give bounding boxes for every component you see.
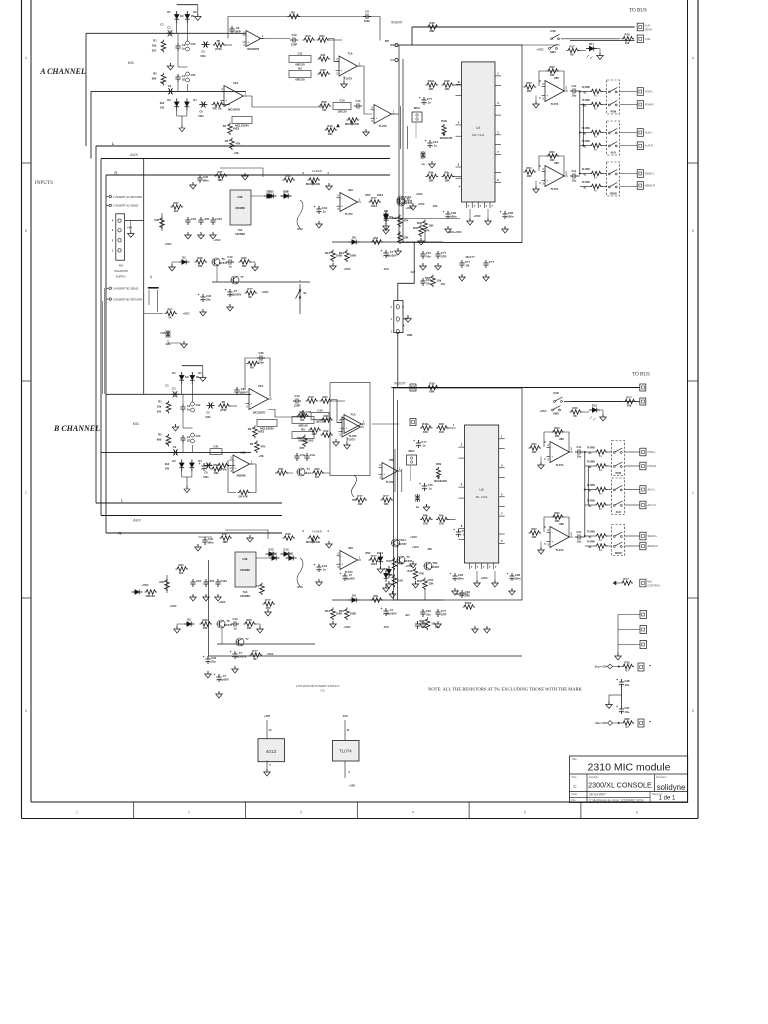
svg-text:CUE: CUE (645, 37, 651, 41)
svg-text:1=PHANTOM POWER STRUCT: 1=PHANTOM POWER STRUCT (296, 684, 340, 688)
svg-text:T5: T5 (406, 555, 410, 559)
svg-text:C??: C?? (465, 260, 471, 264)
svg-text:SW2: SW2 (553, 412, 559, 416)
svg-text:18-Jul-2007: 18-Jul-2007 (589, 793, 606, 797)
svg-text:10u: 10u (625, 683, 630, 687)
svg-text:R34: R34 (179, 563, 184, 567)
svg-text:C1L: C1L (576, 445, 581, 449)
svg-text:C40: C40 (203, 175, 208, 179)
svg-text:4.7: 4.7 (625, 669, 629, 673)
svg-text:+: + (649, 664, 651, 668)
svg-text:+VCC: +VCC (261, 290, 268, 294)
svg-text:R54: R54 (532, 527, 537, 531)
svg-text:TL074: TL074 (339, 749, 352, 754)
svg-text:T1A: T1A (347, 52, 352, 56)
svg-text:301: 301 (152, 48, 157, 52)
svg-text:PGM-L: PGM-L (645, 90, 654, 94)
svg-text:C?: C? (349, 573, 353, 577)
svg-text:PGM-R: PGM-R (648, 464, 657, 468)
svg-text:2K2: 2K2 (309, 439, 314, 443)
svg-text:+: + (225, 99, 227, 103)
svg-text:T7: T7 (245, 637, 249, 641)
svg-text:1u: 1u (421, 162, 424, 166)
svg-text:48V: 48V (119, 264, 124, 268)
svg-text:CONTROL: CONTROL (648, 583, 661, 587)
svg-text:C36: C36 (259, 351, 264, 355)
svg-text:C9: C9 (236, 26, 240, 30)
svg-text:6K: 6K (248, 295, 251, 299)
svg-text:1M5: 1M5 (217, 178, 223, 182)
svg-text:R6?: R6? (167, 307, 172, 311)
svg-text:+: + (413, 439, 415, 443)
svg-text:C??: C?? (441, 251, 447, 255)
svg-text:+VCC: +VCC (182, 312, 189, 316)
svg-text:-: - (376, 108, 377, 112)
svg-text:R37: R37 (218, 170, 223, 174)
svg-text:7s: 7s (599, 538, 602, 542)
svg-text:1u/50V: 1u/50V (346, 577, 355, 581)
svg-text:C??: C?? (421, 440, 427, 444)
svg-text:C13: C13 (433, 140, 438, 144)
svg-text:10k: 10k (431, 622, 436, 626)
svg-text:R2: R2 (158, 432, 162, 436)
svg-text:INSERT: INSERT (391, 21, 403, 25)
svg-text:MC33078: MC33078 (228, 108, 240, 112)
svg-text:C??: C?? (441, 609, 447, 613)
svg-text:B: B (403, 323, 405, 327)
svg-text:PT: PT (352, 498, 356, 502)
svg-text:IN?: IN? (385, 39, 390, 43)
svg-text:R45: R45 (445, 79, 450, 83)
svg-text:10K: 10K (242, 264, 247, 268)
svg-text:7s: 7s (594, 148, 597, 152)
svg-text:T7: T7 (240, 275, 244, 279)
svg-text:1N C??: 1N C?? (465, 255, 475, 259)
svg-text:2310 MIC module: 2310 MIC module (588, 762, 671, 774)
svg-text:SEND-L: SEND-L (648, 534, 658, 538)
svg-text:FADER: FADER (312, 530, 322, 534)
svg-text:10K: 10K (312, 432, 317, 436)
svg-text:+: + (375, 117, 377, 121)
svg-text:MG.7341: MG.7341 (472, 133, 485, 137)
svg-text:C3: C3 (187, 404, 191, 408)
svg-text:.005: .005 (209, 579, 215, 583)
svg-text:R6: R6 (291, 10, 295, 14)
svg-text:GND: GND (407, 334, 413, 337)
svg-text:+VCC: +VCC (539, 409, 546, 413)
svg-text:R12: R12 (321, 68, 326, 72)
svg-text:Vcc=+15V: Vcc=+15V (595, 665, 608, 669)
svg-text:10n: 10n (421, 625, 426, 629)
svg-text:C41: C41 (214, 444, 219, 448)
svg-text:68: 68 (574, 414, 577, 418)
svg-text:47K: 47K (261, 445, 266, 449)
svg-text:TL072: TL072 (379, 124, 387, 128)
svg-text:R??: R?? (265, 598, 271, 602)
svg-text:R??: R?? (626, 395, 632, 399)
svg-text:U3A: U3A (348, 546, 353, 550)
svg-text:-15V: -15V (383, 267, 389, 271)
svg-text:CX2: CX2 (191, 43, 196, 46)
svg-text:+: + (457, 589, 459, 593)
svg-text:R4c: R4c (445, 170, 450, 174)
svg-text:10K: 10K (550, 73, 555, 77)
svg-text:-: - (342, 554, 343, 558)
svg-text:150n: 150n (205, 416, 211, 419)
svg-text:7k R66: 7k R66 (582, 99, 591, 102)
svg-text:R57: R57 (366, 193, 371, 197)
svg-text:10K: 10K (384, 502, 389, 506)
svg-text:R10: R10 (309, 395, 314, 399)
svg-text:10E: 10E (198, 264, 203, 268)
svg-text:2-INSERT B2 SEND: 2-INSERT B2 SEND (113, 287, 138, 291)
svg-text:+: + (616, 678, 618, 682)
svg-text:R42: R42 (413, 226, 418, 230)
svg-text:(47E): (47E) (215, 47, 222, 51)
svg-text:SEND-R: SEND-R (645, 184, 655, 188)
svg-text:C15: C15 (356, 99, 361, 103)
svg-text:PAN: PAN (436, 462, 442, 466)
svg-text:680: 680 (157, 437, 162, 441)
svg-text:10u: 10u (577, 455, 582, 459)
svg-text:PGM: PGM (615, 472, 621, 475)
svg-text:+VCC: +VCC (415, 192, 422, 196)
svg-text:AIR: AIR (159, 580, 164, 584)
svg-text:C26: C26 (451, 211, 456, 215)
svg-text:C??: C?? (489, 260, 495, 264)
svg-text:1W: 1W (160, 106, 164, 110)
svg-text:1u: 1u (323, 568, 326, 572)
svg-text:solidyne: solidyne (657, 783, 686, 792)
svg-text:D2: D2 (187, 617, 191, 621)
svg-text:R4b: R4b (423, 513, 428, 517)
svg-text:R46: R46 (430, 21, 435, 25)
svg-text:+: + (250, 402, 252, 406)
svg-text:C4: C4 (182, 74, 186, 78)
svg-text:100n: 100n (364, 19, 370, 23)
svg-text:+: + (649, 720, 651, 724)
svg-text:74A: 74A (238, 228, 243, 232)
svg-text:BC547: BC547 (398, 542, 407, 546)
svg-text:10K: 10K (445, 87, 450, 91)
svg-text:1n: 1n (428, 101, 431, 105)
svg-text:100P: 100P (239, 391, 245, 395)
svg-text:+: + (507, 572, 509, 576)
svg-text:INSERT: INSERT (394, 382, 406, 386)
svg-text:100n: 100n (507, 215, 513, 219)
svg-text:T3G: T3G (432, 561, 437, 565)
svg-text:R5: R5 (217, 39, 221, 43)
svg-text:R40: R40 (387, 559, 392, 563)
svg-text:MCGE1230: MCGE1230 (434, 480, 447, 483)
svg-text:R79: R79 (430, 381, 435, 385)
svg-text:C?: C? (223, 674, 227, 678)
svg-text:10K1: 10K1 (377, 193, 384, 197)
svg-text:C35: C35 (320, 689, 325, 693)
svg-text:680: 680 (152, 76, 157, 80)
svg-text:150n: 150n (200, 55, 206, 58)
svg-text:R40: R40 (392, 216, 397, 220)
svg-text:10n: 10n (435, 625, 440, 629)
svg-text:R37: R37 (223, 532, 228, 536)
svg-text:BC547: BC547 (404, 199, 413, 203)
svg-text:2x25/25V: 2x25/25V (235, 655, 247, 659)
svg-text:68K: 68K (430, 390, 435, 394)
svg-text:R57: R57 (366, 551, 371, 555)
svg-text:+: + (234, 466, 236, 470)
svg-text:10K: 10K (429, 87, 434, 91)
svg-text:R43: R43 (286, 174, 291, 178)
svg-text:TL074: TL074 (556, 548, 564, 552)
svg-text:1N: 1N (191, 14, 194, 18)
svg-text:R42: R42 (408, 569, 413, 573)
svg-text:R13: R13 (328, 124, 333, 128)
svg-text:U9: U9 (479, 488, 483, 492)
svg-text:R17: R17 (570, 44, 575, 48)
svg-text:47E 1%: 47E 1% (212, 107, 222, 111)
svg-text:C1L: C1L (571, 84, 576, 88)
svg-text:C4: C4 (187, 435, 191, 439)
svg-text:AUX: AUX (133, 519, 141, 523)
svg-text:C40: C40 (208, 537, 213, 541)
svg-text:D14: D14 (284, 547, 289, 551)
svg-text:BC307: BC307 (431, 565, 440, 569)
svg-text:U2E: U2E (242, 557, 247, 561)
svg-text:C11: C11 (298, 51, 303, 55)
svg-text:10K: 10K (439, 430, 444, 434)
svg-text:T1G1: T1G1 (405, 195, 412, 199)
svg-text:15K: 15K (429, 582, 434, 586)
svg-text:7s: 7s (594, 189, 597, 193)
svg-text:R64: R64 (550, 65, 555, 69)
svg-text:4C: 4C (588, 490, 591, 493)
svg-text:1u: 1u (428, 487, 431, 491)
svg-text:15K: 15K (429, 224, 434, 228)
svg-text:+: + (199, 462, 201, 466)
svg-text:1N: 1N (180, 14, 183, 18)
svg-text:D11: D11 (589, 42, 594, 46)
svg-text:MIC: MIC (128, 61, 135, 65)
svg-text:160n: 160n (207, 541, 213, 545)
svg-text:AUX-L: AUX-L (645, 131, 653, 135)
svg-text:AUX: AUX (611, 152, 617, 155)
svg-text:R43a: R43a (428, 79, 435, 83)
svg-text:1E: 1E (182, 78, 185, 82)
svg-text:Revision: Revision (657, 775, 668, 779)
svg-text:7s: 7s (594, 94, 597, 98)
svg-text:4C: 4C (588, 452, 591, 455)
svg-text:7k R66: 7k R66 (587, 541, 596, 544)
svg-text:R??: R?? (357, 494, 363, 498)
svg-text:C7: C7 (390, 608, 394, 612)
svg-text:+: + (341, 563, 343, 567)
svg-text:R4: R4 (248, 427, 252, 431)
svg-text:PAN: PAN (441, 119, 447, 123)
svg-text:+VCC: +VCC (410, 535, 417, 539)
svg-text:7s: 7s (599, 548, 602, 552)
svg-text:C46: C46 (211, 656, 216, 660)
svg-text:47K: 47K (404, 219, 409, 223)
svg-text:1N: 1N (466, 264, 469, 268)
svg-text:+: + (340, 69, 342, 73)
svg-text:10K: 10K (527, 89, 532, 93)
svg-text:+48: +48 (127, 226, 132, 230)
svg-text:+: + (453, 528, 455, 532)
svg-text:47E: 47E (427, 547, 432, 551)
svg-text:R10: R10 (306, 34, 311, 38)
svg-text:100n+VCC: 100n+VCC (448, 230, 461, 234)
svg-text:160n: 160n (202, 179, 208, 183)
svg-text:+VCC: +VCC (412, 545, 419, 549)
svg-text:R64: R64 (555, 426, 560, 430)
svg-text:Date: Date (572, 792, 578, 796)
svg-text:C34: C34 (322, 564, 327, 568)
svg-text:+VE: +VE (233, 151, 238, 155)
svg-text:R5x: R5x (214, 463, 219, 467)
svg-text:R??: R?? (247, 287, 253, 291)
svg-text:7k R66: 7k R66 (582, 181, 591, 184)
svg-text:-15V: -15V (342, 714, 348, 718)
svg-text:10n: 10n (426, 282, 431, 286)
svg-text:CX3: CX3 (191, 74, 196, 77)
svg-text:SEND-L: SEND-L (645, 172, 655, 176)
svg-text:T1A: T1A (350, 413, 355, 417)
svg-text:+: + (500, 210, 502, 214)
svg-text:CUE: CUE (550, 29, 556, 33)
svg-text:T6: T6 (221, 257, 225, 261)
svg-text:+: + (341, 205, 343, 209)
svg-text:R54: R54 (532, 442, 537, 446)
svg-text:-: - (251, 393, 252, 397)
svg-text:T1G1: T1G1 (399, 538, 406, 542)
svg-text:+: + (381, 249, 383, 253)
svg-text:100n: 100n (258, 361, 264, 365)
svg-text:10E120: 10E120 (315, 420, 325, 424)
svg-text:22u/35V: 22u/35V (386, 612, 396, 616)
svg-text:10K: 10K (423, 430, 428, 434)
svg-text:C1L: C1L (576, 530, 581, 534)
svg-text:7k R66: 7k R66 (587, 447, 596, 450)
svg-text:2N5566: 2N5566 (236, 474, 246, 478)
svg-text:+VCC: +VCC (141, 583, 148, 587)
svg-text:.005: .005 (204, 217, 210, 221)
svg-text:R64: R64 (555, 511, 560, 515)
svg-text:C2: C2 (173, 445, 177, 449)
svg-text:10K: 10K (439, 522, 444, 526)
svg-text:467: 467 (315, 475, 320, 479)
svg-text:TL072: TL072 (349, 434, 357, 438)
svg-text:TO BUS: TO BUS (632, 373, 650, 378)
svg-text:10k: 10k (152, 43, 157, 47)
svg-text:R5: R5 (250, 442, 254, 446)
svg-text:4.7: 4.7 (625, 725, 629, 729)
svg-text:NOTE: ALL THE RESISTORS AT: NOTE: ALL THE RESISTORS AT 5% EXCLUDING … (428, 687, 583, 692)
svg-text:R24: R24 (323, 395, 328, 399)
svg-text:-: - (342, 196, 343, 200)
svg-text:MCGE1230: MCGE1230 (440, 137, 453, 140)
svg-text:C??: C?? (427, 97, 433, 101)
svg-text:1n: 1n (182, 47, 185, 51)
svg-text:100K: 100K (350, 612, 356, 616)
svg-text:R46: R46 (417, 579, 422, 583)
svg-text:C32: C32 (306, 410, 311, 414)
svg-text:R1: R1 (153, 38, 157, 42)
svg-text:1N4148: 1N4148 (145, 594, 155, 598)
svg-text:22u: 22u (211, 660, 216, 664)
svg-text:U8C: U8C (559, 522, 564, 526)
svg-text:AUX: AUX (616, 511, 622, 514)
svg-text:CX3: CX3 (196, 435, 201, 438)
svg-text:R45: R45 (439, 422, 444, 426)
svg-text:2k2: 2k2 (179, 571, 184, 575)
svg-text:7k R66: 7k R66 (587, 461, 596, 464)
svg-text:SEND: SEND (615, 552, 622, 555)
svg-text:R29: R29 (203, 618, 208, 622)
svg-text:R53: R53 (298, 227, 303, 231)
svg-text:10u: 10u (572, 94, 577, 98)
svg-text:+VCC: +VCC (343, 267, 350, 271)
svg-text:C9: C9 (241, 387, 245, 391)
svg-text:100n: 100n (514, 577, 520, 581)
svg-text:C1L: C1L (571, 169, 576, 173)
svg-text:R12: R12 (339, 251, 344, 255)
svg-text:CD4066: CD4066 (235, 206, 245, 210)
svg-text:R6: R6 (250, 366, 254, 370)
svg-text:CD4066: CD4066 (240, 568, 250, 572)
svg-text:R80: R80 (625, 717, 630, 721)
svg-text:+: + (314, 563, 316, 567)
svg-text:TL074: TL074 (556, 463, 564, 467)
svg-text:150P: 150P (294, 404, 300, 408)
svg-text:AUX-R: AUX-R (645, 144, 653, 148)
svg-text:A CHANNEL: A CHANNEL (39, 67, 86, 76)
svg-text:C10: C10 (292, 33, 297, 37)
svg-text:R12: R12 (339, 609, 344, 613)
svg-text:D12: D12 (592, 403, 597, 407)
svg-text:C13: C13 (428, 483, 433, 487)
svg-text:+VCC: +VCC (405, 206, 412, 210)
svg-text:PGM-R: PGM-R (645, 103, 654, 107)
svg-text:47K: 47K (425, 229, 430, 233)
svg-text:TL074: TL074 (551, 102, 559, 106)
svg-text:-: - (248, 33, 249, 37)
svg-text:47K: 47K (419, 572, 424, 576)
svg-text:150n: 150n (203, 476, 209, 479)
svg-text:1-INSERT A1 RETURN: 1-INSERT A1 RETURN (113, 195, 142, 199)
svg-text:ML.1204: ML.1204 (476, 495, 488, 499)
svg-text:6K: 6K (253, 657, 256, 661)
svg-text:+: + (450, 572, 452, 576)
svg-text:R79: R79 (625, 660, 630, 664)
svg-text:U8C: U8C (554, 161, 559, 165)
svg-text:10K: 10K (214, 471, 219, 475)
svg-text:1K: 1K (168, 316, 171, 320)
svg-text:R9: R9 (301, 427, 305, 431)
svg-text:AIR: AIR (154, 218, 159, 222)
svg-text:CFR: CFR (441, 255, 447, 259)
svg-text:Number: Number (589, 775, 598, 779)
svg-text:-: - (341, 60, 342, 64)
svg-text:+15V: +15V (349, 784, 356, 788)
svg-text:1N: 1N (185, 375, 188, 379)
svg-text:4n7: 4n7 (405, 613, 410, 617)
svg-text:45E3: 45E3 (258, 430, 265, 434)
svg-text:4C: 4C (583, 174, 586, 177)
svg-text:R2: R2 (153, 71, 157, 75)
svg-text:R29: R29 (198, 256, 203, 260)
svg-text:+: + (203, 655, 205, 659)
svg-text:1W: 1W (165, 467, 169, 471)
